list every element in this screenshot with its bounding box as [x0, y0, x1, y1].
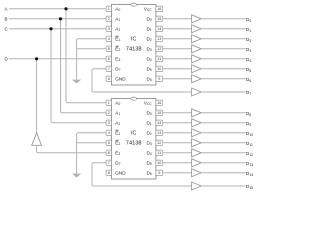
svg-text:D6: D6 [146, 170, 151, 176]
svg-text:2: 2 [108, 111, 110, 115]
svg-text:1: 1 [108, 7, 110, 11]
svg-text:E2: E2 [115, 140, 120, 146]
svg-text:16: 16 [157, 7, 161, 11]
svg-text:4: 4 [108, 37, 110, 41]
svg-text:13: 13 [157, 37, 161, 41]
svg-text:11: 11 [157, 57, 161, 61]
svg-text:D6: D6 [146, 76, 151, 82]
svg-text:D5: D5 [146, 160, 151, 166]
svg-text:8: 8 [108, 171, 110, 175]
svg-text:VCC: VCC [144, 100, 152, 106]
svg-text:B: B [5, 16, 8, 21]
svg-text:12: 12 [157, 47, 161, 51]
svg-text:A: A [5, 6, 8, 11]
svg-text:6: 6 [108, 57, 110, 61]
svg-text:74138: 74138 [126, 46, 142, 52]
svg-text:5: 5 [108, 47, 110, 51]
svg-text:14: 14 [157, 121, 161, 125]
svg-text:A0: A0 [115, 100, 120, 106]
svg-text:A0: A0 [115, 6, 120, 12]
svg-text:9: 9 [158, 171, 160, 175]
svg-text:IC: IC [131, 131, 136, 137]
svg-text:E3: E3 [115, 56, 120, 62]
svg-text:15: 15 [157, 111, 161, 115]
svg-text:A2: A2 [115, 26, 120, 32]
svg-text:10: 10 [157, 67, 161, 71]
svg-text:D7: D7 [115, 66, 120, 72]
svg-text:E2: E2 [115, 46, 120, 52]
svg-text:A2: A2 [115, 120, 120, 126]
svg-text:5: 5 [108, 141, 110, 145]
svg-text:D1: D1 [146, 120, 151, 126]
svg-text:6: 6 [108, 151, 110, 155]
svg-text:D4: D4 [146, 150, 151, 156]
svg-text:12: 12 [157, 141, 161, 145]
svg-text:D3: D3 [146, 46, 151, 52]
svg-text:D0: D0 [146, 110, 151, 116]
svg-text:7: 7 [108, 161, 110, 165]
svg-text:E1: E1 [115, 130, 120, 136]
svg-text:D1: D1 [146, 26, 151, 32]
svg-text:D3: D3 [146, 140, 151, 146]
svg-text:D2: D2 [146, 130, 151, 136]
svg-text:7: 7 [108, 67, 110, 71]
svg-text:15: 15 [157, 17, 161, 21]
svg-text:11: 11 [157, 151, 161, 155]
svg-text:D7: D7 [115, 160, 120, 166]
svg-text:14: 14 [157, 27, 161, 31]
svg-text:2: 2 [108, 17, 110, 21]
svg-text:3: 3 [108, 27, 110, 31]
svg-text:74138: 74138 [126, 140, 142, 146]
svg-text:D0: D0 [146, 16, 151, 22]
svg-text:D5: D5 [146, 66, 151, 72]
svg-text:E1: E1 [115, 36, 120, 42]
svg-text:IC: IC [131, 37, 136, 43]
svg-text:A1: A1 [115, 110, 120, 116]
svg-text:9: 9 [158, 77, 160, 81]
svg-text:A1: A1 [115, 16, 120, 22]
svg-text:E3: E3 [115, 150, 120, 156]
svg-text:1: 1 [108, 101, 110, 105]
svg-text:8: 8 [108, 77, 110, 81]
svg-text:10: 10 [157, 161, 161, 165]
svg-text:VCC: VCC [144, 6, 152, 12]
svg-text:13: 13 [157, 131, 161, 135]
svg-text:D2: D2 [146, 36, 151, 42]
svg-text:GND: GND [115, 76, 126, 81]
svg-text:3: 3 [108, 121, 110, 125]
svg-text:4: 4 [108, 131, 110, 135]
svg-text:D4: D4 [146, 56, 151, 62]
svg-text:GND: GND [115, 170, 126, 175]
svg-text:16: 16 [157, 101, 161, 105]
